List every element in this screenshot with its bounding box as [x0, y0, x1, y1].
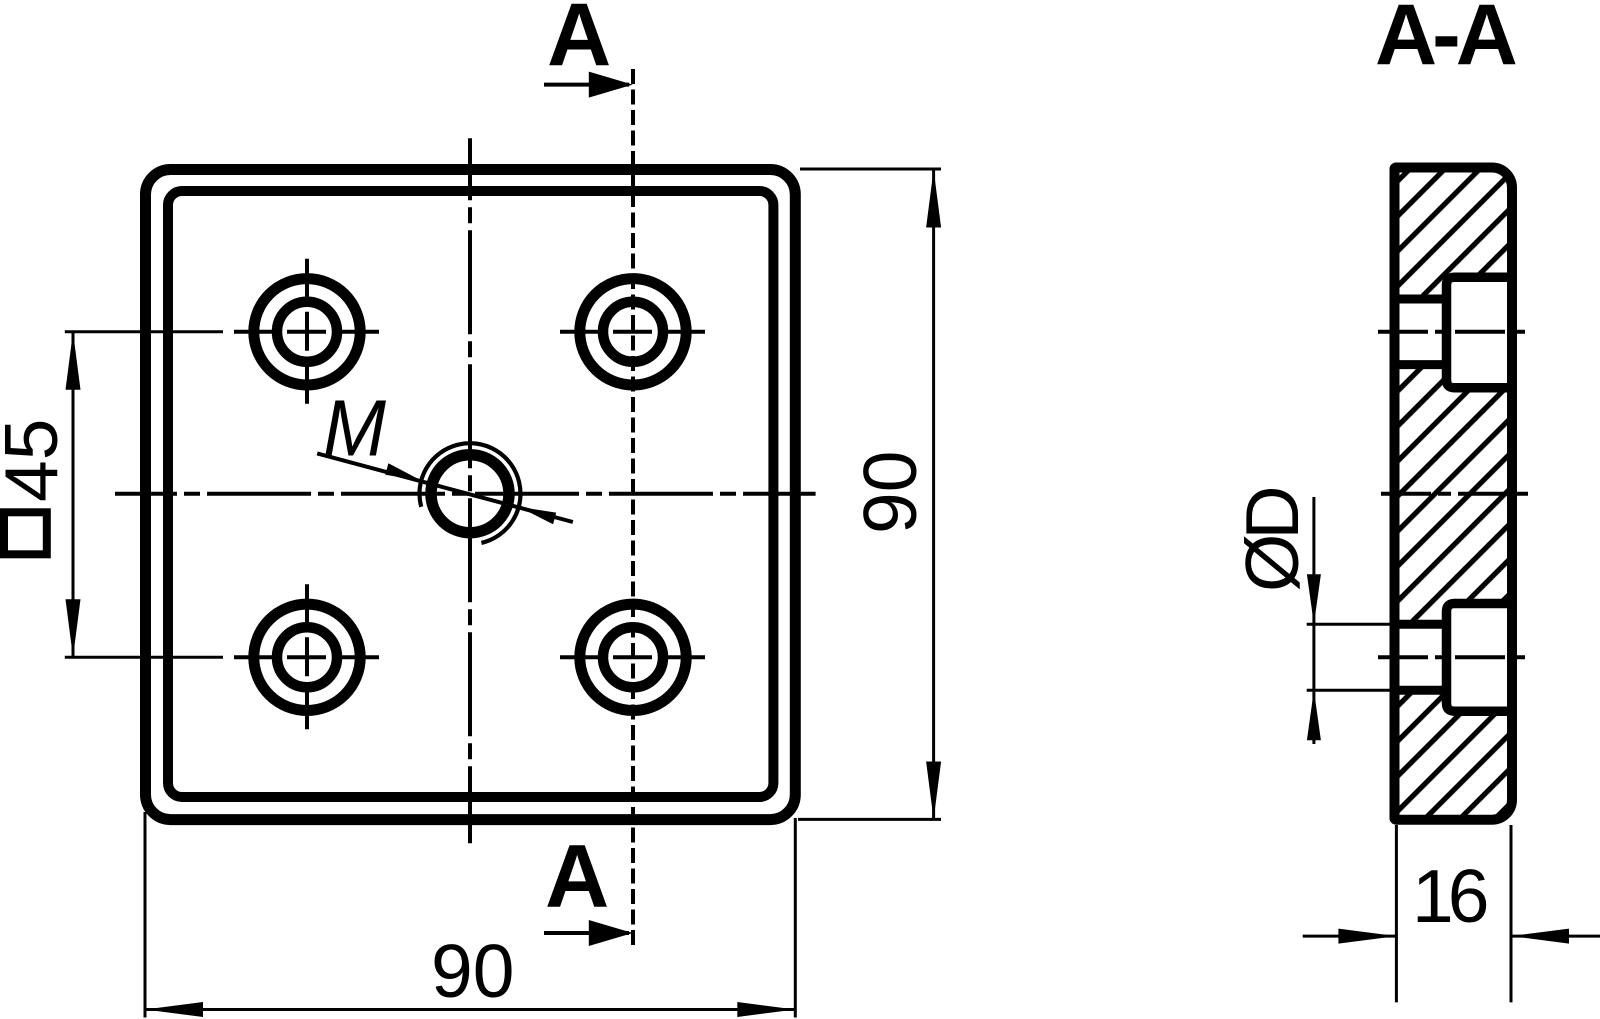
svg-text:90: 90	[848, 451, 932, 534]
dim 90 right dimension line	[932, 170, 935, 820]
svg-text:45: 45	[0, 419, 73, 502]
counterbore hole A outer circle	[254, 279, 360, 385]
dim 45 arrow down	[66, 599, 81, 657]
dim OD arrow lower	[1307, 690, 1321, 740]
dim 45 arrow up	[66, 332, 81, 390]
central hole thread arc	[419, 443, 520, 543]
counterbore hole C outer circle	[254, 604, 360, 710]
dim 45 dimension line	[72, 332, 75, 658]
hole channel top line row 1	[1395, 295, 1447, 304]
hole channel bottom line row 1	[1395, 360, 1447, 369]
dim 90 right arrow up	[926, 170, 941, 228]
counterbore pocket outline row 1	[1447, 277, 1513, 388]
hole channel white row 1	[1395, 299, 1447, 365]
M leader arrow lower-right	[519, 507, 556, 524]
dim 45 extension line top	[65, 330, 223, 333]
dim 90 right arrow down	[926, 762, 941, 820]
counterbore hole A inner circle	[277, 302, 337, 362]
svg-text:A: A	[545, 826, 609, 926]
dim 45 extension line bottom	[65, 656, 223, 659]
svg-text:A-A: A-A	[1375, 0, 1516, 83]
M leader arrow upper-left	[385, 463, 421, 480]
hole C vertical crosshair	[305, 584, 309, 730]
counterbore pocket white row 1	[1447, 277, 1513, 388]
svg-text:ØD: ØD	[1230, 489, 1314, 592]
section line A-A (dashed)	[631, 69, 635, 949]
square symbol of dim 45	[4, 512, 47, 554]
dim OD extension line bottom	[1307, 689, 1390, 692]
dim 16 dimension line left	[1303, 935, 1397, 938]
vertical centerline	[468, 138, 472, 843]
section body hatching	[1395, 168, 1513, 820]
svg-text:M: M	[323, 384, 386, 473]
svg-text:16: 16	[1412, 854, 1487, 938]
dim 16 extension line left	[1395, 825, 1398, 1002]
section arrow top	[544, 83, 629, 87]
dim OD dimension line	[1312, 497, 1315, 744]
section hole centerline row 1	[1378, 330, 1528, 334]
hole channel top line row 2	[1395, 620, 1447, 629]
section arrow bottom	[544, 931, 629, 935]
hole B horizontal crosshair	[560, 330, 706, 334]
section hole centerline row 2	[1378, 655, 1528, 659]
dim OD extension line top	[1307, 623, 1390, 626]
dim 90 bottom arrow left	[145, 1002, 203, 1017]
hole A horizontal crosshair	[234, 330, 380, 334]
plate inner face outline	[168, 191, 773, 797]
counterbore hole C inner circle	[277, 627, 337, 687]
hole A vertical crosshair	[305, 259, 309, 405]
dim 16 arrow left	[1338, 929, 1396, 944]
dim 16 extension line right	[1510, 825, 1513, 1002]
dim 90 bottom extension line left	[144, 812, 147, 1018]
hole D horizontal crosshair	[560, 655, 706, 659]
plate outer outline (front view)	[146, 170, 796, 820]
counterbore hole B outer circle	[580, 279, 686, 385]
hole channel white row 2	[1395, 624, 1447, 690]
svg-text:90: 90	[431, 929, 514, 1013]
dim 90 bottom arrow right	[737, 1002, 795, 1017]
central hole M bold circle	[431, 455, 509, 533]
dim 90 right extension line bottom	[798, 818, 941, 821]
dim 90 bottom dimension line	[145, 1008, 795, 1011]
dim 16 arrow right	[1511, 929, 1569, 944]
counterbore hole B inner circle	[603, 302, 663, 362]
section mid-height centerline	[1381, 492, 1531, 496]
counterbore pocket outline row 2	[1447, 604, 1513, 712]
dim OD arrow upper	[1307, 574, 1321, 624]
svg-text:A: A	[547, 0, 611, 84]
dim 90 bottom extension line right	[794, 818, 797, 1018]
dim 90 right extension line top	[800, 168, 941, 171]
label M leader line	[317, 453, 573, 522]
horizontal centerline	[115, 492, 816, 496]
counterbore hole D inner circle	[603, 627, 663, 687]
hole channel bottom line row 2	[1395, 686, 1447, 695]
dim 16 dimension line right	[1511, 935, 1600, 938]
counterbore hole D outer circle	[580, 604, 686, 710]
counterbore pocket white row 2	[1447, 604, 1513, 712]
hole C horizontal crosshair	[234, 655, 380, 659]
section outline	[1395, 168, 1513, 820]
